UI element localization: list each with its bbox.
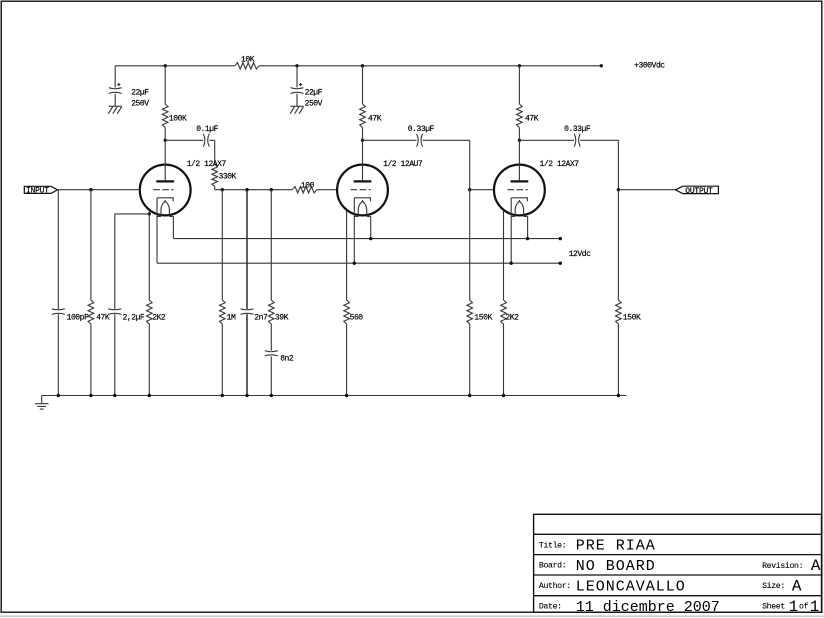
U1 (1/2 12AX7 stage 1) anode (164, 140, 166, 180)
capacitor C 2n7 (246, 190, 248, 309)
svg-text:250V: 250V (305, 99, 323, 108)
U3 (1/2 12AX7 output) grid (dashed) (508, 189, 528, 191)
wire INPUT to tube1 grid (58, 189, 140, 191)
svg-text:150K: 150K (623, 313, 641, 322)
resistor R 2K2 cathode (tube3) (501, 300, 507, 324)
node heater B tube3 (510, 262, 513, 265)
ground (chassis) under left 22uF (109, 105, 122, 107)
node ground junction (89, 394, 92, 397)
U2 (1/2 12AU7) grid (dashed) (351, 189, 371, 191)
node +300Vdc terminal (600, 64, 603, 67)
resistor R 47K plate load tube3 (518, 66, 520, 104)
U3 (1/2 12AX7 output) heater filament (515, 201, 523, 216)
svg-text:11 dicembre 2007: 11 dicembre 2007 (576, 599, 720, 616)
wire ground rail (42, 395, 627, 397)
triode tube U1 (1/2 12AX7 stage 1) envelope (140, 165, 191, 216)
svg-text:22µF: 22µF (131, 89, 149, 98)
svg-text:39K: 39K (275, 313, 289, 322)
resistor R 560 cathode (tube2) (344, 300, 350, 324)
svg-text:10K: 10K (241, 56, 255, 65)
svg-text:Board:: Board: (539, 560, 566, 570)
svg-text:2K2: 2K2 (505, 313, 519, 322)
node junction 39K (270, 188, 273, 191)
svg-text:8n2: 8n2 (280, 355, 294, 364)
U1 (1/2 12AX7 stage 1) grid (dashed) (153, 189, 173, 191)
node junction 2n7 (245, 188, 248, 191)
node junction B+ / R 100K (164, 64, 167, 67)
node heater A tube2 (369, 237, 372, 240)
svg-text:1/2 12AX7: 1/2 12AX7 (187, 160, 227, 169)
node ground junction (113, 394, 116, 397)
svg-text:330K: 330K (219, 172, 237, 181)
wire output node to tag (618, 189, 675, 191)
wire tube3 cathode stub (503, 210, 505, 300)
triode tube U2 (1/2 12AU7) envelope (337, 165, 388, 216)
ground (chassis) under right 22uF (290, 105, 303, 107)
node tube1 cathode junction (148, 212, 151, 215)
node ground junction (245, 394, 248, 397)
wire heater rail B (12Vdc) (157, 262, 560, 264)
svg-text:560: 560 (350, 313, 364, 322)
node junction B+ / 47K (tube3) (518, 64, 521, 67)
U1 (1/2 12AX7 stage 1) heater lead right (172, 216, 174, 238)
node junction B+ / C2 (295, 64, 298, 67)
wire down to tube3 grid (469, 140, 471, 189)
wire tube1 cathode to bypass (115, 213, 150, 215)
resistor R 150K output load (617, 190, 619, 300)
svg-text:Title:: Title: (539, 541, 566, 551)
svg-text:100pF: 100pF (67, 313, 89, 322)
U2 (1/2 12AU7) anode (362, 140, 364, 180)
node ground junction (502, 394, 505, 397)
node ground junction (221, 394, 224, 397)
node junction 1M (221, 188, 224, 191)
resistor R 100K plate load (164, 66, 166, 104)
svg-text:0.33µF: 0.33µF (564, 125, 591, 134)
U2 (1/2 12AU7) heater lead right (370, 216, 372, 238)
U1 (1/2 12AX7 stage 1) cathode sleeve (157, 198, 173, 201)
svg-text:47K: 47K (368, 115, 382, 124)
svg-text:1M: 1M (227, 313, 236, 322)
svg-text:250V: 250V (131, 99, 149, 108)
capacitor C 22uF/250V (right) (296, 66, 298, 88)
capacitor C 8n2 (270, 324, 272, 351)
svg-text:150K: 150K (474, 313, 492, 322)
svg-text:12Vdc: 12Vdc (569, 250, 591, 259)
resistor R 2K2 cathode (tube1) (147, 300, 153, 324)
node tube3 plate node (518, 139, 521, 142)
node INPUT tag (24, 186, 57, 193)
U1 (1/2 12AX7 stage 1) heater filament (161, 201, 169, 216)
resistor R 47K input load (90, 190, 92, 300)
svg-text:100: 100 (301, 181, 315, 190)
resistor R 47K plate load tube2 (362, 66, 364, 104)
node tube2 plate node (361, 139, 364, 142)
U3 (1/2 12AX7 output) cathode sleeve (511, 198, 527, 201)
resistor R 150K grid leak tube3 (469, 190, 471, 300)
wire tube2 cathode stub (346, 210, 348, 300)
wire heater rail A (12Vdc) (173, 238, 560, 240)
svg-text:Size:: Size: (762, 581, 785, 591)
node output junction (617, 188, 620, 191)
U3 (1/2 12AX7 output) anode (518, 140, 520, 180)
node ground junction (617, 394, 620, 397)
svg-text:2,2µF: 2,2µF (123, 313, 145, 322)
node ground junction (270, 394, 273, 397)
ground (earth) symbol (41, 396, 43, 404)
node tube1 plate node (164, 139, 167, 142)
node junction input / 47K (89, 188, 92, 191)
svg-text:100K: 100K (169, 115, 187, 124)
capacitor C 100pF input (57, 190, 59, 309)
svg-text:2n7: 2n7 (254, 313, 268, 322)
capacitor C 2,2uF cathode bypass (114, 214, 116, 309)
node junction B+ / 47K (tube2) (361, 64, 364, 67)
svg-text:A: A (811, 557, 821, 575)
U2 (1/2 12AU7) heater filament (358, 201, 366, 216)
svg-text:NO BOARD: NO BOARD (576, 558, 656, 575)
resistor R 330K grid leak (212, 165, 218, 187)
wire grid rail tube2 (215, 189, 293, 191)
title block frame (534, 514, 822, 612)
node ground junction (57, 394, 60, 397)
svg-text:Sheet: Sheet (762, 601, 785, 611)
svg-text:1: 1 (810, 598, 820, 616)
capacitor C 0.33uF coupling 1 (363, 139, 417, 141)
svg-text:of: of (799, 601, 809, 611)
U3 (1/2 12AX7 output) heater lead left (510, 198, 512, 263)
svg-text:Date:: Date: (539, 602, 562, 611)
svg-text:47K: 47K (96, 313, 110, 322)
svg-text:0.33µF: 0.33µF (408, 125, 435, 134)
node ground junction (148, 394, 151, 397)
wire grid to tube3 (470, 189, 494, 191)
svg-text:LEONCAVALLO: LEONCAVALLO (576, 579, 686, 596)
svg-text:A: A (792, 578, 802, 596)
svg-text:22µF: 22µF (305, 89, 323, 98)
svg-text:Author:: Author: (539, 581, 571, 591)
svg-text:0.1µF: 0.1µF (196, 125, 218, 134)
svg-text:1: 1 (789, 598, 799, 616)
wire B+ rail right part (259, 65, 601, 67)
U2 (1/2 12AU7) heater lead left (353, 198, 355, 263)
svg-text:2K2: 2K2 (152, 313, 166, 322)
node ground junction (345, 394, 348, 397)
wire tube1 cathode stub (148, 210, 150, 300)
resistor R 1M (221, 190, 223, 300)
U1 (1/2 12AX7 stage 1) heater lead left (156, 198, 158, 263)
svg-text:+300Vdc: +300Vdc (634, 61, 665, 70)
svg-text:1/2 12AU7: 1/2 12AU7 (383, 160, 423, 169)
node heater rail A end (559, 237, 562, 240)
U2 (1/2 12AU7) cathode sleeve (354, 198, 370, 201)
svg-text:47K: 47K (525, 115, 539, 124)
node heater B tube2 (353, 262, 356, 265)
triode tube U3 (1/2 12AX7 output) envelope (494, 165, 545, 216)
capacitor C 0.33uF coupling 2 (519, 139, 574, 141)
node OUTPUT tag (675, 186, 718, 193)
svg-text:INPUT: INPUT (26, 187, 49, 196)
svg-text:1/2 12AX7: 1/2 12AX7 (540, 160, 580, 169)
wire down to output node (617, 140, 619, 189)
resistor 10K (235, 63, 259, 69)
node tube3 grid junction (468, 188, 471, 191)
resistor R 100 (292, 187, 317, 193)
node ground junction (468, 394, 471, 397)
node heater A tube3 (526, 237, 529, 240)
node heater rail B end (559, 262, 562, 265)
U3 (1/2 12AX7 output) heater lead right (527, 216, 529, 238)
svg-text:PRE RIAA: PRE RIAA (576, 537, 656, 554)
node B+ rail +300Vdc (115, 65, 235, 67)
capacitor C 22uF/250V (left) (114, 66, 116, 88)
resistor R 39K (270, 190, 272, 300)
wire 0.1uF to 330K (214, 140, 216, 164)
svg-text:OUTPUT: OUTPUT (685, 187, 713, 196)
svg-text:Revision:: Revision: (762, 561, 803, 571)
capacitor C 0.1uF coupling (165, 139, 203, 141)
